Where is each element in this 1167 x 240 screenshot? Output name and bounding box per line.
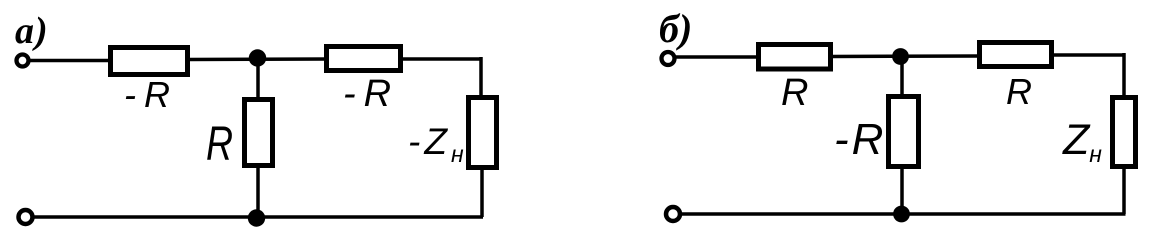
svg-text:б): б) — [659, 6, 692, 51]
svg-text:Zн: Zн — [1062, 116, 1102, 167]
svg-text:-R: -R — [343, 73, 399, 115]
svg-text:R: R — [781, 72, 808, 114]
svg-text:-R: -R — [124, 74, 178, 115]
svg-text:-Zн: -Zн — [408, 121, 464, 167]
svg-text:R: R — [1006, 71, 1032, 112]
svg-text:а): а) — [15, 10, 49, 52]
svg-text:R: R — [206, 118, 233, 172]
svg-text:-R: -R — [834, 115, 886, 164]
